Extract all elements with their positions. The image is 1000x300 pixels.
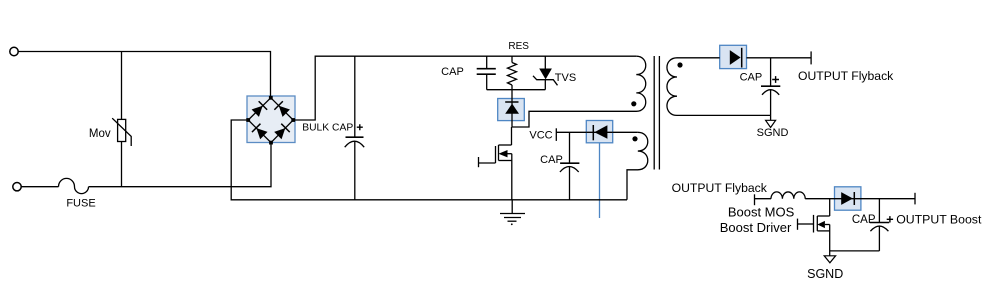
svg-text:OUTPUT Flyback: OUTPUT Flyback [672, 181, 768, 195]
svg-text:Boost Driver: Boost Driver [720, 220, 792, 235]
svg-text:CAP: CAP [441, 66, 464, 78]
svg-text:CAP: CAP [852, 214, 876, 226]
svg-text:Mov: Mov [89, 128, 111, 140]
svg-text:RES: RES [508, 41, 529, 52]
svg-text:OUTPUT Boost: OUTPUT Boost [896, 212, 982, 226]
svg-text:CAP: CAP [740, 72, 763, 84]
svg-text:TVS: TVS [555, 72, 576, 84]
svg-text:FUSE: FUSE [66, 198, 95, 210]
svg-text:Boost MOS: Boost MOS [728, 205, 795, 220]
svg-text:CAP: CAP [540, 154, 563, 166]
svg-text:OUTPUT Flyback: OUTPUT Flyback [798, 69, 894, 83]
svg-text:BULK CAP: BULK CAP [302, 122, 353, 133]
svg-text:VCC: VCC [529, 129, 552, 141]
svg-text:SGND: SGND [807, 267, 843, 281]
svg-text:SGND: SGND [757, 127, 789, 139]
